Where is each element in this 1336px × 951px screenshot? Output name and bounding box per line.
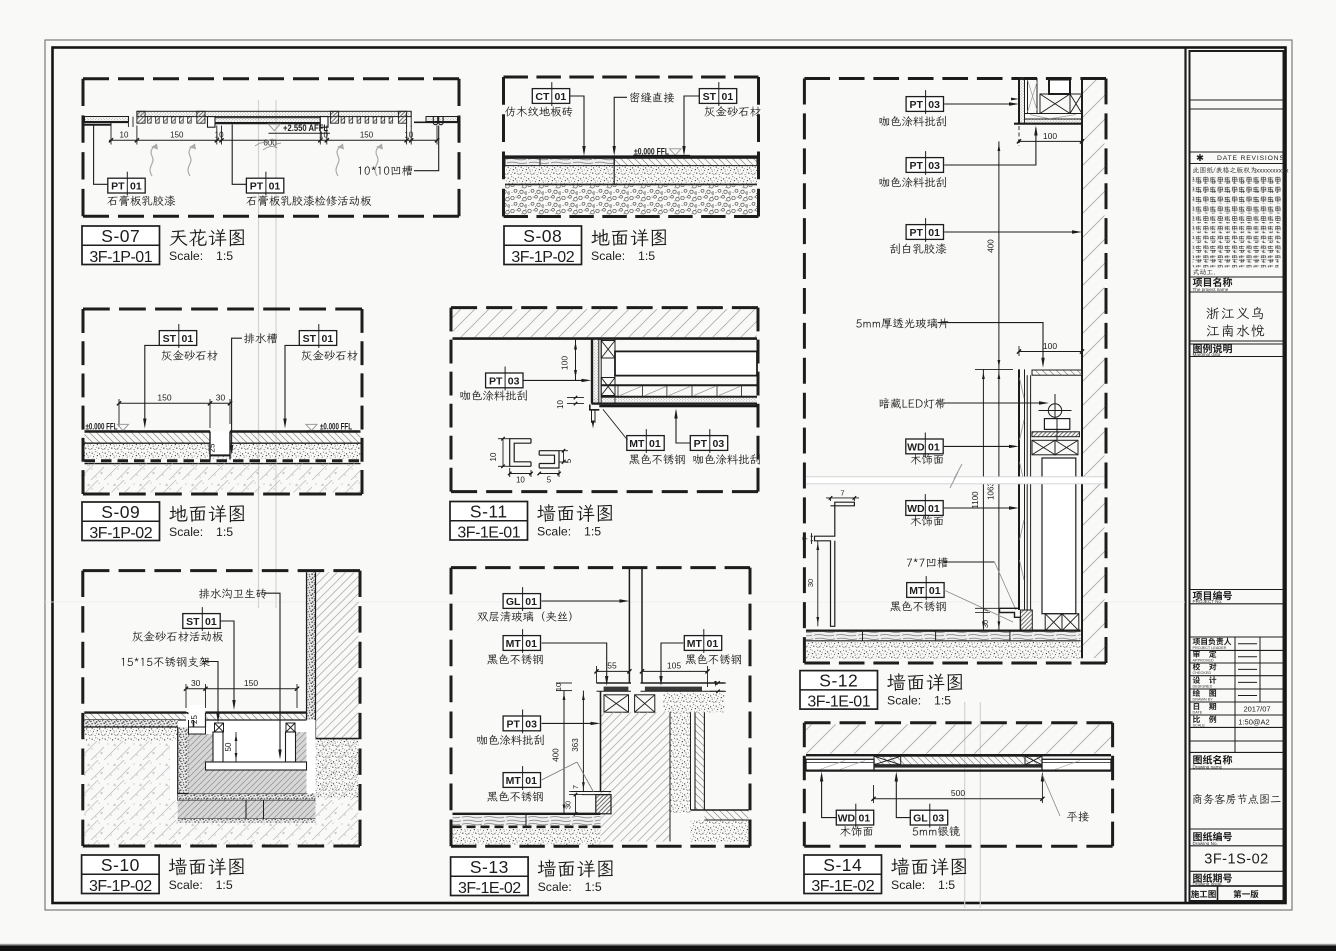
stainless sill caps	[604, 687, 629, 691]
svg-text:PT: PT	[506, 718, 520, 730]
tag MT 01 left	[503, 636, 540, 651]
concrete slab	[505, 184, 757, 215]
detail title box	[450, 502, 528, 541]
svg-text:2017/07: 2017/07	[1243, 704, 1270, 713]
svg-text:7: 7	[840, 489, 844, 498]
mirror 5mm	[874, 765, 1042, 768]
ceiling slab	[806, 724, 1111, 753]
svg-text:Drawing No.: Drawing No.	[1193, 841, 1218, 846]
furring band	[601, 396, 757, 398]
wood tile band	[505, 158, 614, 165]
left comb band	[137, 111, 145, 123]
dim line	[119, 402, 230, 404]
label drain tile	[199, 589, 210, 599]
pit excavation	[170, 720, 316, 801]
leader PT03 b	[676, 411, 690, 443]
detail title box	[800, 671, 878, 710]
svg-text:ST: ST	[703, 91, 717, 103]
svg-text:30: 30	[216, 393, 226, 403]
dimension line	[109, 139, 437, 141]
detail S-09 border	[83, 308, 362, 311]
svg-text:01: 01	[929, 585, 941, 597]
tag WD 01	[820, 772, 823, 782]
dim 363	[582, 691, 584, 792]
wall hatch band	[1083, 80, 1105, 658]
svg-text:1:5: 1:5	[216, 878, 233, 892]
svg-text:DESIGNED: DESIGNED	[1193, 684, 1213, 688]
tag ST 01	[183, 614, 220, 629]
svg-text:CT: CT	[535, 91, 550, 103]
svg-text:APPROVED: APPROVED	[1193, 658, 1214, 662]
svg-text:1063: 1063	[986, 482, 995, 500]
svg-text:MT: MT	[629, 438, 645, 450]
svg-text:DATE: DATE	[1193, 710, 1203, 714]
svg-text:GL: GL	[913, 813, 928, 825]
leader MT01	[603, 409, 628, 440]
pit lining left	[178, 727, 189, 801]
FFL right	[306, 424, 317, 430]
stipple column	[670, 712, 691, 813]
dim 10 top	[556, 682, 572, 684]
wall column	[601, 712, 671, 841]
tag GL 03	[895, 772, 898, 782]
svg-text:363: 363	[571, 738, 580, 752]
dim 100 mid	[1019, 351, 1082, 353]
blocking strip	[1027, 78, 1029, 114]
corner stainless channel	[590, 405, 600, 410]
svg-text:100: 100	[1043, 341, 1057, 351]
access panel 600	[215, 118, 320, 123]
svg-text:10: 10	[556, 400, 565, 409]
pit lining bottom	[178, 794, 316, 801]
svg-text:1:5: 1:5	[584, 524, 601, 538]
svg-text:PT: PT	[111, 181, 125, 193]
svg-text:1100: 1100	[971, 491, 980, 509]
profile dims	[502, 439, 504, 467]
left floor stone band	[84, 713, 186, 720]
air swirl arrows	[150, 144, 157, 176]
svg-text:ST: ST	[186, 616, 200, 628]
detail title box	[82, 855, 160, 894]
mortar bed	[85, 443, 361, 458]
mortar band left	[84, 727, 177, 741]
svg-text:3F-1P-02: 3F-1P-02	[89, 878, 152, 895]
drawing number header	[1193, 832, 1202, 841]
mirror backing strip	[874, 756, 1042, 765]
tag PT 03 b	[690, 436, 727, 451]
svg-text:CHECKED: CHECKED	[1193, 671, 1212, 675]
break band	[806, 477, 1105, 484]
profile sub-detail	[510, 439, 531, 467]
svg-text:01: 01	[525, 638, 537, 650]
detail title text	[538, 860, 556, 878]
svg-text:Scale:: Scale:	[538, 880, 572, 894]
svg-text:100: 100	[560, 356, 570, 370]
svg-text:PROJECT LEADER: PROJECT LEADER	[1193, 646, 1227, 650]
leader to PT 01 left	[94, 125, 108, 185]
shelf below	[1032, 432, 1079, 437]
svg-text:10: 10	[404, 131, 413, 140]
skirting detail	[1000, 608, 1021, 630]
joint line	[613, 157, 615, 185]
mortar bed	[505, 166, 757, 185]
wood panel right	[1042, 759, 1111, 770]
7x7 profile sub-detail	[815, 502, 855, 626]
tag ST 01 right	[299, 331, 336, 346]
tag MT 01 right	[684, 636, 721, 651]
blocking X row	[604, 695, 629, 712]
tag PT 03 b	[906, 158, 943, 173]
svg-text:150: 150	[157, 393, 171, 403]
svg-text:01: 01	[928, 227, 940, 239]
blocking column	[600, 339, 602, 404]
blocking bottom line	[601, 384, 757, 386]
bulkhead top assembly	[1018, 78, 1020, 124]
svg-text:GL: GL	[506, 596, 521, 608]
svg-text:1:5: 1:5	[216, 525, 233, 539]
detail title text	[537, 504, 555, 522]
glass front pane	[1026, 375, 1028, 610]
svg-text:Scale:: Scale:	[887, 693, 921, 707]
wall return bottom right	[704, 810, 748, 820]
svg-text:MT: MT	[687, 638, 703, 650]
legend header	[1193, 344, 1202, 353]
stainless reveal band	[599, 405, 757, 408]
svg-text:25: 25	[190, 715, 199, 724]
tag WD 01 b	[906, 501, 943, 516]
dim 500	[874, 798, 1043, 800]
svg-text:30: 30	[981, 620, 990, 628]
floor surface line	[505, 155, 757, 158]
dim 400	[563, 691, 565, 814]
tag PT 03	[503, 716, 540, 731]
screed inside pit	[189, 734, 214, 794]
svg-text:Scale:: Scale:	[537, 524, 571, 538]
plaster strip right	[695, 712, 704, 810]
project name	[1207, 307, 1220, 319]
svg-text:01: 01	[205, 616, 217, 628]
fold crease lines	[258, 100, 260, 608]
tag MT 01	[907, 583, 944, 598]
svg-text:MT: MT	[506, 638, 522, 650]
svg-text:3F-1P-01: 3F-1P-01	[89, 249, 152, 266]
drawing name header	[1193, 755, 1202, 764]
detail title text	[169, 858, 187, 876]
svg-text:150: 150	[244, 678, 258, 688]
svg-text:150: 150	[170, 131, 184, 140]
bracket X right	[286, 723, 295, 732]
tag CT 01	[532, 89, 569, 104]
svg-text:S-12: S-12	[819, 671, 858, 691]
detail title box	[82, 226, 160, 265]
soffit layers	[1025, 113, 1083, 115]
svg-text:xxxxxxxxxx: xxxxxxxxxx	[1256, 168, 1289, 175]
svg-text:5: 5	[564, 458, 573, 463]
LED driver	[1044, 419, 1069, 430]
svg-text:01: 01	[928, 441, 940, 453]
svg-text:01: 01	[649, 438, 661, 450]
drawing name	[1193, 794, 1202, 804]
detail title box	[804, 855, 882, 894]
svg-text:25: 25	[208, 443, 217, 452]
tag GL 01	[503, 594, 540, 609]
svg-text:MT: MT	[506, 775, 522, 787]
ceiling slab	[453, 309, 757, 337]
dims 7 30	[975, 607, 1000, 609]
svg-text:500: 500	[951, 788, 965, 798]
svg-text:Drawing name: Drawing name	[1193, 764, 1223, 769]
tag PT 01	[906, 225, 943, 240]
concrete slab	[85, 464, 361, 493]
wall face line	[1081, 78, 1083, 659]
leader ST01	[684, 96, 699, 153]
svg-text:400: 400	[552, 748, 561, 762]
svg-text:01: 01	[182, 333, 194, 345]
svg-text:150: 150	[360, 131, 374, 140]
svg-text:S-14: S-14	[823, 855, 862, 875]
left floor	[453, 813, 601, 815]
drawing issue header	[1193, 874, 1202, 883]
dim 10	[567, 397, 584, 399]
svg-text:01: 01	[130, 181, 142, 193]
detail title box	[504, 226, 582, 265]
label glass sheet	[856, 319, 861, 327]
plaster strip	[594, 339, 599, 404]
blocking X marks	[874, 756, 901, 765]
svg-text:10: 10	[554, 683, 563, 691]
svg-text:S-13: S-13	[470, 857, 509, 877]
svg-text:3F-1P-02: 3F-1P-02	[511, 249, 574, 266]
leader CT01	[570, 96, 584, 153]
svg-text:Scale:: Scale:	[169, 878, 203, 892]
plaster soffit strip	[594, 398, 757, 404]
wood panel	[615, 351, 757, 375]
tag PT 03	[906, 97, 943, 112]
svg-text:03: 03	[928, 160, 940, 172]
svg-text:S-11: S-11	[470, 501, 508, 521]
svg-text:01: 01	[269, 181, 281, 193]
svg-text:03: 03	[525, 718, 537, 730]
svg-text:1:5: 1:5	[216, 249, 233, 263]
svg-text:3F-1E-01: 3F-1E-01	[457, 525, 520, 542]
svg-text:DRAWN BY: DRAWN BY	[1193, 697, 1214, 701]
issue row	[1217, 886, 1219, 901]
svg-text:S-09: S-09	[101, 502, 140, 522]
AFFL level mark	[269, 124, 281, 131]
blocking X	[1032, 440, 1055, 455]
svg-text:5: 5	[547, 476, 552, 485]
photo bottom dark edge	[0, 946, 1336, 951]
detail S-13 border	[451, 566, 750, 569]
mortar top right	[663, 691, 725, 712]
svg-text:10: 10	[215, 131, 224, 140]
tag ST 01 left	[159, 331, 196, 346]
label bracket	[122, 658, 125, 666]
svg-text:01: 01	[322, 333, 334, 345]
label LED strip	[880, 398, 890, 408]
project name header	[1193, 278, 1203, 287]
disclaimer text	[1193, 167, 1199, 173]
dims 55 105	[597, 670, 630, 672]
label joint	[630, 92, 639, 102]
title block outer	[1190, 51, 1284, 901]
10x10 groove symbol	[433, 117, 437, 125]
svg-text:01: 01	[707, 638, 719, 650]
svg-text:1:5: 1:5	[638, 249, 655, 263]
leader left	[145, 345, 160, 424]
leader right	[285, 345, 299, 424]
svg-text:10: 10	[120, 131, 129, 140]
svg-text:30: 30	[564, 801, 573, 809]
membrane dashed line	[85, 459, 361, 462]
wall hatch right	[316, 572, 359, 738]
drain slot opening	[189, 705, 206, 720]
tag MT 01 bottom	[503, 773, 540, 788]
bulkhead face	[591, 339, 593, 404]
channel tiles	[213, 732, 223, 762]
LED lamp symbol	[1048, 404, 1061, 417]
detail S-12 border	[804, 77, 1106, 80]
track box	[1049, 80, 1070, 95]
svg-text:03: 03	[933, 813, 945, 825]
blocking X	[1040, 94, 1070, 114]
svg-text:PT: PT	[909, 99, 923, 111]
svg-text:3F-1P-02: 3F-1P-02	[89, 525, 152, 542]
membrane band left	[84, 720, 177, 727]
skirting block	[596, 795, 611, 814]
leader PT03	[523, 379, 588, 381]
svg-text:WD: WD	[907, 441, 925, 453]
svg-text:The project name: The project name	[1193, 287, 1229, 292]
detail S-10 border	[83, 569, 360, 572]
svg-text:7: 7	[803, 536, 810, 540]
right comb band	[330, 111, 338, 123]
svg-text:400: 400	[986, 239, 995, 253]
project number header	[1193, 591, 1203, 600]
svg-text:Scale:: Scale:	[169, 525, 203, 539]
dim 7	[569, 791, 584, 793]
svg-text:DATE REVISIONS: DATE REVISIONS	[1217, 155, 1285, 162]
detail S-14 border	[804, 721, 1112, 724]
left panel slot	[127, 117, 129, 128]
svg-text:55: 55	[607, 661, 617, 671]
svg-text:PT: PT	[909, 227, 923, 239]
svg-text:PT: PT	[250, 181, 264, 193]
bracket X left	[215, 723, 224, 732]
svg-text:Marginal data: Marginal data	[1193, 352, 1221, 357]
svg-text:1:5: 1:5	[934, 693, 951, 707]
svg-text:Scale:: Scale:	[169, 249, 203, 263]
tag WD 01	[906, 439, 943, 454]
glass panes	[628, 569, 630, 683]
detail title box	[451, 857, 528, 896]
label groove 7x7	[907, 558, 912, 566]
dim 100 top	[1019, 140, 1082, 142]
svg-text:±0.000 FFL: ±0.000 FFL	[320, 421, 352, 431]
glass shelf	[1032, 370, 1082, 375]
dim 400	[998, 141, 1000, 369]
tag PT 01 left	[108, 178, 145, 193]
concrete ground	[84, 741, 358, 845]
drain slot	[210, 432, 230, 456]
blocking X bottom	[1045, 614, 1062, 631]
tag ST 01	[699, 89, 736, 104]
svg-text:3F-1E-02: 3F-1E-02	[811, 878, 874, 895]
svg-text:105: 105	[667, 661, 681, 671]
svg-text:S-08: S-08	[523, 226, 562, 246]
dims 1100/1063	[982, 369, 984, 630]
right ceiling board	[426, 117, 458, 122]
stone tile band left	[85, 432, 211, 443]
svg-text:7: 7	[983, 608, 990, 612]
skirting recess	[571, 791, 611, 793]
tag PT 01 right	[246, 178, 283, 193]
tag MT 01	[627, 436, 664, 451]
svg-text:1:50@A2: 1:50@A2	[1238, 717, 1269, 726]
detail title text	[170, 230, 188, 246]
svg-text:1:5: 1:5	[938, 878, 955, 892]
svg-text:MT: MT	[909, 585, 925, 597]
wall base line right	[316, 738, 359, 740]
svg-text:01: 01	[928, 503, 940, 515]
detail title text	[891, 858, 909, 876]
detail S-08 border	[504, 76, 759, 79]
svg-text:PT: PT	[489, 375, 503, 387]
dim 50	[235, 732, 237, 762]
left ceiling board	[85, 117, 129, 122]
svg-text:WD: WD	[907, 503, 925, 515]
svg-text:01: 01	[525, 775, 537, 787]
svg-text:10: 10	[516, 476, 525, 485]
detail title text	[887, 673, 905, 691]
svg-text:PT: PT	[694, 438, 708, 450]
svg-text:✱: ✱	[1196, 153, 1204, 164]
svg-text:30: 30	[191, 678, 201, 688]
svg-text:ST: ST	[303, 333, 317, 345]
right edge dim	[710, 682, 726, 684]
svg-text:Scale:: Scale:	[891, 878, 925, 892]
floor surface lines	[85, 430, 211, 432]
dim 30/150	[186, 688, 297, 690]
wood panel edge	[1018, 369, 1020, 610]
stone tile band	[614, 158, 757, 165]
svg-text:03: 03	[713, 438, 725, 450]
bulkhead bottom	[592, 403, 758, 405]
detail title text	[591, 229, 609, 245]
face line	[806, 769, 1111, 771]
title block separator	[1184, 48, 1186, 904]
floor	[806, 630, 1081, 632]
svg-text:100: 100	[1043, 131, 1057, 141]
wood panel left	[806, 759, 874, 770]
cover stone	[206, 713, 307, 720]
detail title text	[169, 505, 187, 521]
detail S-11 border	[451, 306, 758, 309]
svg-text:30: 30	[806, 579, 815, 587]
dim 100	[575, 339, 577, 380]
drain label	[244, 333, 255, 343]
svg-text:PT: PT	[909, 160, 923, 172]
svg-text:ST: ST	[163, 333, 177, 345]
title block row lines	[1190, 99, 1284, 101]
svg-text:WD: WD	[838, 813, 856, 825]
svg-text:50: 50	[224, 742, 233, 751]
svg-text:7: 7	[571, 785, 580, 789]
upper gypsum board strip	[137, 111, 411, 116]
svg-text:S-07: S-07	[101, 226, 140, 246]
label flush joint	[1041, 772, 1044, 782]
leader to PT 01 right	[232, 125, 246, 185]
